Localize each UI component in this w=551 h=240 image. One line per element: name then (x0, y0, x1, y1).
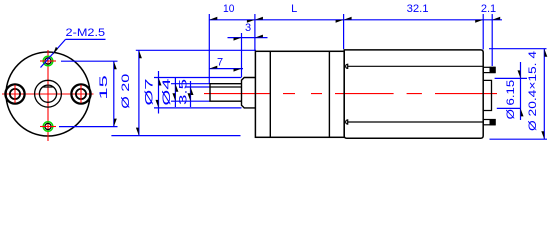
extension dash boss bottom (497, 107, 521, 109)
svg-text:L: L (291, 3, 297, 15)
gearbox rear joint (328, 51, 330, 137)
extension line motor bottom right (490, 138, 548, 140)
shaft flat chord (43, 86, 54, 88)
extension line top hole (61, 60, 118, 62)
mounting hole bottom crosshair (40, 126, 56, 128)
side hole left inner (10, 89, 20, 99)
dimension line Ø4 (174, 77, 176, 107)
svg-text:3: 3 (245, 22, 251, 34)
svg-text:Ø7: Ø7 (144, 79, 156, 106)
mounting hole bottom green thread circle (43, 122, 53, 132)
extension line motor top right (489, 48, 547, 50)
extension line motor front (343, 14, 345, 49)
extension line motor rear (482, 14, 484, 50)
dimension line 15 (shared) (113, 61, 115, 126)
dimension line Ø20.4x15.4 (543, 49, 545, 140)
svg-text:15: 15 (98, 75, 110, 100)
centerline vertical (front view) (47, 50, 49, 141)
svg-text:2-M2.5: 2-M2.5 (66, 27, 106, 39)
svg-text:Ø4: Ø4 (161, 79, 173, 106)
extension line shaft tip (208, 14, 210, 84)
svg-text:Ø 6.15: Ø 6.15 (505, 80, 517, 120)
extension line shaft bottom (171, 100, 210, 102)
dimension line Ø7 (158, 71, 160, 114)
extension line shaft top (171, 83, 210, 85)
front face outer circle (motor body Ø20) (6, 52, 90, 136)
side hole right outer (71, 84, 90, 103)
extension line terminal end (491, 14, 493, 66)
top dimension line (209, 19, 502, 21)
extension line gearbox top left (136, 49, 256, 51)
terminal top (483, 67, 495, 72)
svg-text:10: 10 (223, 3, 234, 15)
mounting hole bottom M2.5 (45, 123, 51, 129)
extension line bottom left (111, 135, 240, 137)
shaft circle Ø4 (39, 85, 56, 102)
gearbox body (255, 51, 344, 137)
leader arrowhead 2-M2.5 (51, 47, 59, 55)
motor can seam top (346, 64, 484, 68)
extension line gearbox face (254, 14, 256, 51)
extension line boss top (154, 77, 242, 79)
extension line boss bottom (154, 107, 242, 109)
dimension line 7 (209, 68, 243, 70)
dimension line Ø20 outer (138, 50, 140, 135)
gearbox plate joint (269, 51, 271, 137)
mounting hole top crosshair (40, 60, 56, 62)
side view centerline (204, 93, 497, 95)
dimension line 3.5 (190, 81, 192, 107)
svg-text:3.5: 3.5 (178, 79, 190, 105)
extension dash boss top (495, 77, 527, 79)
dimension line Ø6.15 (520, 62, 522, 120)
extension line bottom hole (59, 126, 118, 128)
svg-text:7: 7 (217, 57, 223, 69)
leader underline 2-M2.5 (66, 38, 106, 40)
shaft boss (242, 78, 256, 108)
svg-text:Ø 20.4×15. 4: Ø 20.4×15. 4 (527, 51, 539, 131)
mounting hole top M2.5 (45, 58, 51, 64)
svg-text:Ø 20: Ø 20 (120, 74, 132, 109)
mounting hole top green thread circle (43, 56, 53, 66)
svg-text:2.1: 2.1 (481, 3, 496, 15)
side hole left crosshair (14, 85, 16, 103)
extension line shaft flat (186, 86, 210, 88)
shaft flat line (210, 86, 242, 88)
side hole right crosshair (80, 85, 82, 103)
motor body (344, 50, 483, 138)
shaft boss outer circle Ø7 (35, 80, 62, 107)
chain arrows (209, 17, 217, 20)
leader diagonal 2-M2.5 (41, 39, 66, 67)
svg-text:32.1: 32.1 (407, 3, 429, 15)
output shaft (210, 84, 242, 102)
dimension line 3 (228, 37, 268, 39)
motor can seam bottom (346, 120, 484, 124)
terminal bottom (483, 120, 495, 125)
side hole right inner (76, 89, 86, 99)
extension line boss front (241, 33, 243, 77)
side hole left outer (5, 84, 24, 103)
centerline horizontal (front view) (2, 93, 94, 95)
rear bearing boss (483, 80, 491, 110)
